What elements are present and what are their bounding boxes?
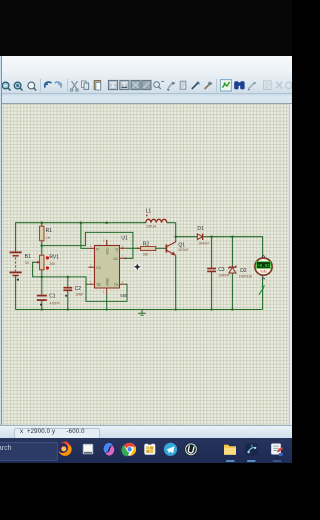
voltage probe arrow <box>259 285 265 295</box>
svg-text:CV: CV <box>96 266 101 270</box>
taskbar icon chrome <box>121 443 136 457</box>
svg-text:+0.02: +0.02 <box>257 265 270 269</box>
node top rail / R1 junction <box>41 221 44 224</box>
toolbar button paste <box>94 80 100 89</box>
toolbar button goto sheet <box>154 81 164 89</box>
svg-text:GND: GND <box>106 278 110 286</box>
taskbar icon notes app <box>271 444 283 456</box>
svg-text:100UH: 100UH <box>146 224 157 228</box>
svg-text:U1: U1 <box>121 236 128 242</box>
toolbar button block copy <box>108 80 117 89</box>
toolbar button disabled refresh <box>286 81 292 88</box>
svg-text:555: 555 <box>120 293 128 298</box>
node emitter / ground rail <box>175 308 177 310</box>
battery B1 <box>10 252 31 280</box>
svg-text:Volts: Volts <box>260 270 267 274</box>
wire collector drop from L1 to Q1 <box>175 223 177 243</box>
svg-text:1N4007: 1N4007 <box>198 242 209 246</box>
toolbar button undo <box>45 82 52 88</box>
node D2 top <box>231 235 234 238</box>
svg-text:470PF: 470PF <box>49 301 60 305</box>
svg-text:C3: C3 <box>218 267 225 273</box>
voltmeter instrument <box>255 255 272 279</box>
wire output pin3 to R2 <box>126 247 141 249</box>
node C3 top <box>210 235 213 238</box>
op-amp timer U1 555 <box>88 236 138 298</box>
toolbar separator <box>216 79 218 92</box>
wire RV1 wiper link <box>33 262 89 284</box>
node artifact below C1 <box>40 304 42 306</box>
svg-text:R1: R1 <box>46 228 53 234</box>
svg-text:1: 1 <box>103 291 105 294</box>
node discharge tap <box>41 244 44 247</box>
node top rail / VCC pin junction <box>105 221 108 224</box>
taskbar active underline notes <box>273 460 282 462</box>
svg-text:D2: D2 <box>240 268 247 274</box>
toolbar button wire pen <box>192 81 200 89</box>
wire C2 bottom to ground rail <box>67 291 69 309</box>
svg-text:1K: 1K <box>46 236 51 240</box>
node artifact below C2 <box>65 295 67 297</box>
wire top VCC rail from battery to inductor <box>16 223 176 253</box>
svg-text:TH: TH <box>114 283 119 287</box>
toolbar button zoom area <box>28 82 36 90</box>
wire TR to TH loop under U1 <box>86 284 127 301</box>
taskbar icon firefox <box>58 441 72 456</box>
pin end markers <box>122 247 139 259</box>
toolbar separator <box>40 79 42 92</box>
svg-text:8: 8 <box>103 239 105 242</box>
toolbar button search binoculars <box>234 81 244 89</box>
svg-text:L1: L1 <box>146 209 152 215</box>
capacitor C1 <box>37 294 61 306</box>
toolbar button redo <box>55 82 62 88</box>
resistor R1 <box>40 226 53 241</box>
toolbar button copy <box>82 81 89 89</box>
toolbar button disabled delete <box>276 81 282 88</box>
svg-text:Q: Q <box>116 247 119 251</box>
toolbar button block rotate <box>131 80 140 89</box>
svg-text:RV1: RV1 <box>49 254 59 260</box>
toolbar button property assign <box>248 81 256 89</box>
wire C2 top <box>67 277 69 287</box>
svg-text:20K: 20K <box>49 262 56 266</box>
svg-text:330: 330 <box>143 252 149 256</box>
wire R2 to Q1 base <box>156 247 166 249</box>
toolbar button zoom in <box>14 82 22 90</box>
svg-text:BC547: BC547 <box>178 248 188 252</box>
node C2 tap <box>67 276 70 279</box>
node GND pin / ground rail <box>106 308 108 310</box>
wire bottom ground rail <box>16 276 263 309</box>
zener diode D2 <box>229 266 253 279</box>
svg-text:1N4733A: 1N4733A <box>239 275 253 279</box>
wire reset pin4 to VCC rail <box>81 223 89 249</box>
node D2 bottom <box>231 308 233 310</box>
taskbar icon office case <box>144 443 155 455</box>
wire Q1 emitter to ground rail <box>175 256 177 310</box>
inductor L1 <box>146 209 167 229</box>
svg-text:3V: 3V <box>25 261 30 265</box>
resistor R2 <box>141 241 156 256</box>
svg-text:C1: C1 <box>49 294 56 300</box>
wire R1 bottom to RV1 <box>41 241 43 255</box>
toolbar button disabled paste special <box>264 80 272 89</box>
wire VCC pin8 <box>106 240 108 246</box>
ground symbol <box>138 310 146 316</box>
toolbar button cut <box>70 81 78 91</box>
svg-text:R2: R2 <box>143 241 150 247</box>
taskbar icon proteus <box>245 443 258 456</box>
taskbar icon file explorer <box>224 445 236 455</box>
wire GND pin1 to ground rail <box>106 294 108 310</box>
wire RV1 bottom to C1 <box>41 270 43 295</box>
capacitor C2 <box>63 286 83 296</box>
toolbar button zoom out <box>2 82 10 90</box>
cursor origin marker <box>134 263 141 270</box>
wire voltmeter bottom leg <box>262 276 264 310</box>
transistor Q1 <box>166 242 188 256</box>
node wiper link / RV1 bottom <box>41 276 44 279</box>
node C2 / ground rail <box>67 308 69 310</box>
toolbar button netlist active <box>220 79 231 90</box>
svg-text:TR: TR <box>96 283 101 287</box>
svg-text:B1: B1 <box>25 254 31 260</box>
toolbar button tool hammer <box>205 81 213 89</box>
node C1 / ground rail <box>41 308 43 310</box>
svg-text:D1: D1 <box>197 226 204 232</box>
wire C3 branch <box>211 237 213 310</box>
svg-text:C2: C2 <box>75 286 82 292</box>
potentiometer RV1 <box>35 254 59 269</box>
svg-text:1000NF: 1000NF <box>218 273 229 277</box>
taskbar icon telegram <box>164 443 177 456</box>
wire D2 branch <box>231 237 233 310</box>
capacitor C3 <box>207 267 229 277</box>
svg-text:10NF: 10NF <box>75 292 83 296</box>
node collector / D1 row <box>174 235 177 238</box>
taskbar icon copilot <box>102 443 115 456</box>
taskbar active underline explorer <box>226 460 235 462</box>
toolbar button view magnify <box>167 81 175 89</box>
wire discharge tap R1/RV1 junction to pin7 <box>42 232 133 258</box>
toolbar button edit <box>180 81 186 89</box>
taskbar icon window app <box>83 444 93 454</box>
wire D1 output row <box>176 237 263 258</box>
wire C1 bottom to ground rail <box>41 301 43 310</box>
wire R1 top <box>41 223 43 227</box>
node C3 bottom <box>211 308 213 310</box>
taskbar active underline proteus <box>247 460 256 462</box>
toolbar button block move <box>120 80 129 89</box>
node top rail / reset drop junction <box>80 221 83 224</box>
diode D1 <box>197 226 209 245</box>
svg-text:DC: DC <box>113 257 118 261</box>
toolbar button block delete <box>142 80 151 89</box>
svg-text:VCC: VCC <box>106 247 110 255</box>
toolbar separator <box>67 79 69 92</box>
taskbar icon U app <box>184 443 197 456</box>
